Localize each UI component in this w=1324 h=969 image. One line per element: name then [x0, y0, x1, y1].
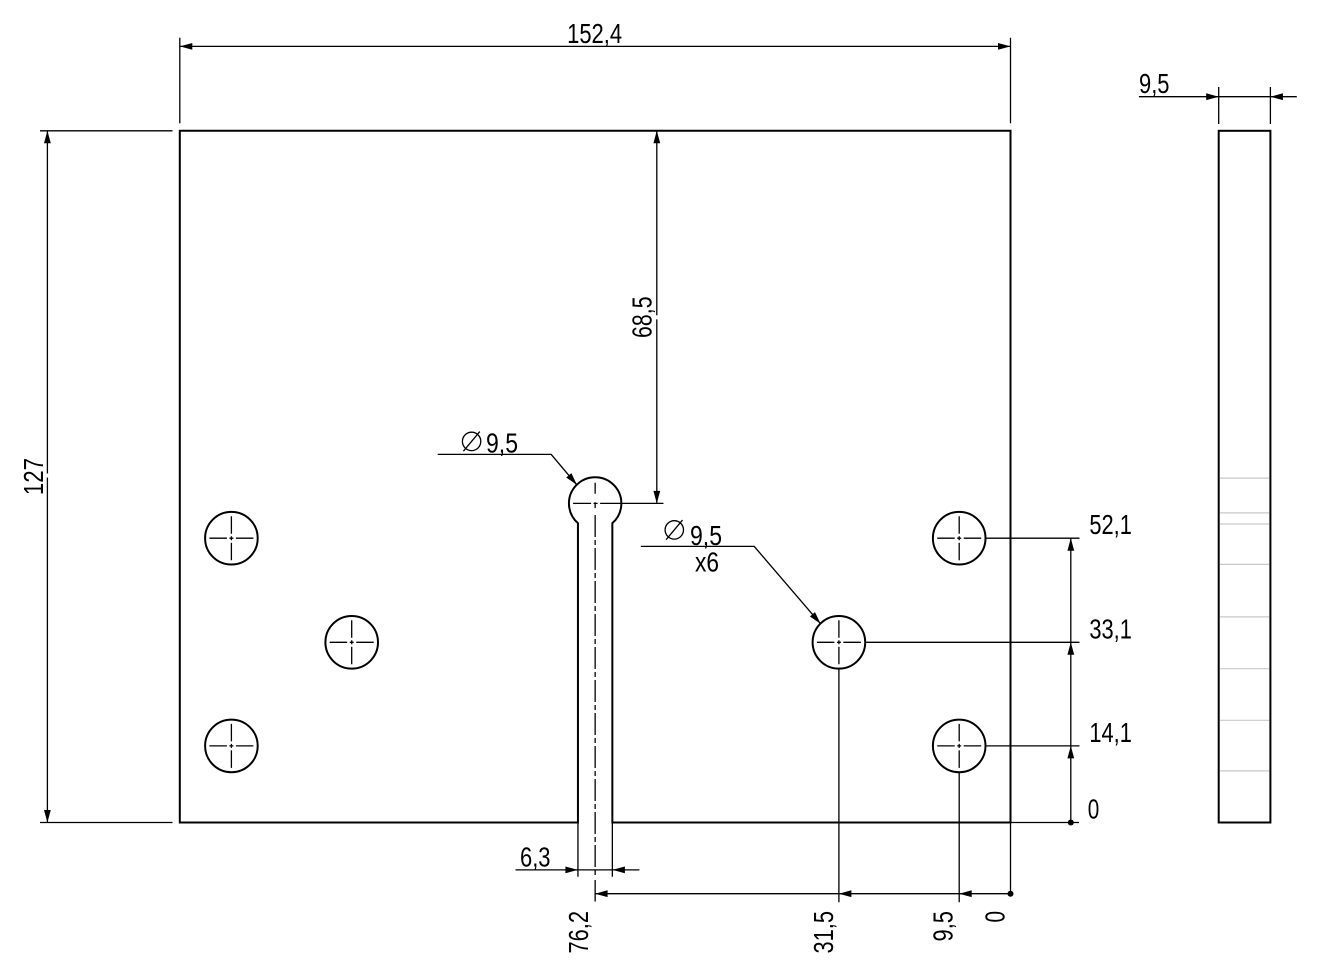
svg-text:9,5: 9,5 [1139, 68, 1170, 99]
svg-text:6,3: 6,3 [520, 841, 551, 872]
svg-text:x6: x6 [695, 547, 719, 578]
svg-text:76,2: 76,2 [563, 911, 594, 954]
svg-text:31,5: 31,5 [808, 911, 839, 954]
svg-text:33,1: 33,1 [1089, 613, 1132, 644]
svg-text:14,1: 14,1 [1089, 717, 1132, 748]
svg-text:152,4: 152,4 [567, 18, 622, 49]
svg-text:9,5: 9,5 [927, 911, 958, 942]
svg-text:52,1: 52,1 [1089, 509, 1132, 540]
svg-text:0: 0 [980, 911, 1011, 923]
svg-text:127: 127 [18, 458, 49, 495]
svg-text:68,5: 68,5 [627, 296, 658, 338]
svg-text:9,5: 9,5 [486, 428, 518, 459]
svg-text:0: 0 [1088, 794, 1100, 825]
